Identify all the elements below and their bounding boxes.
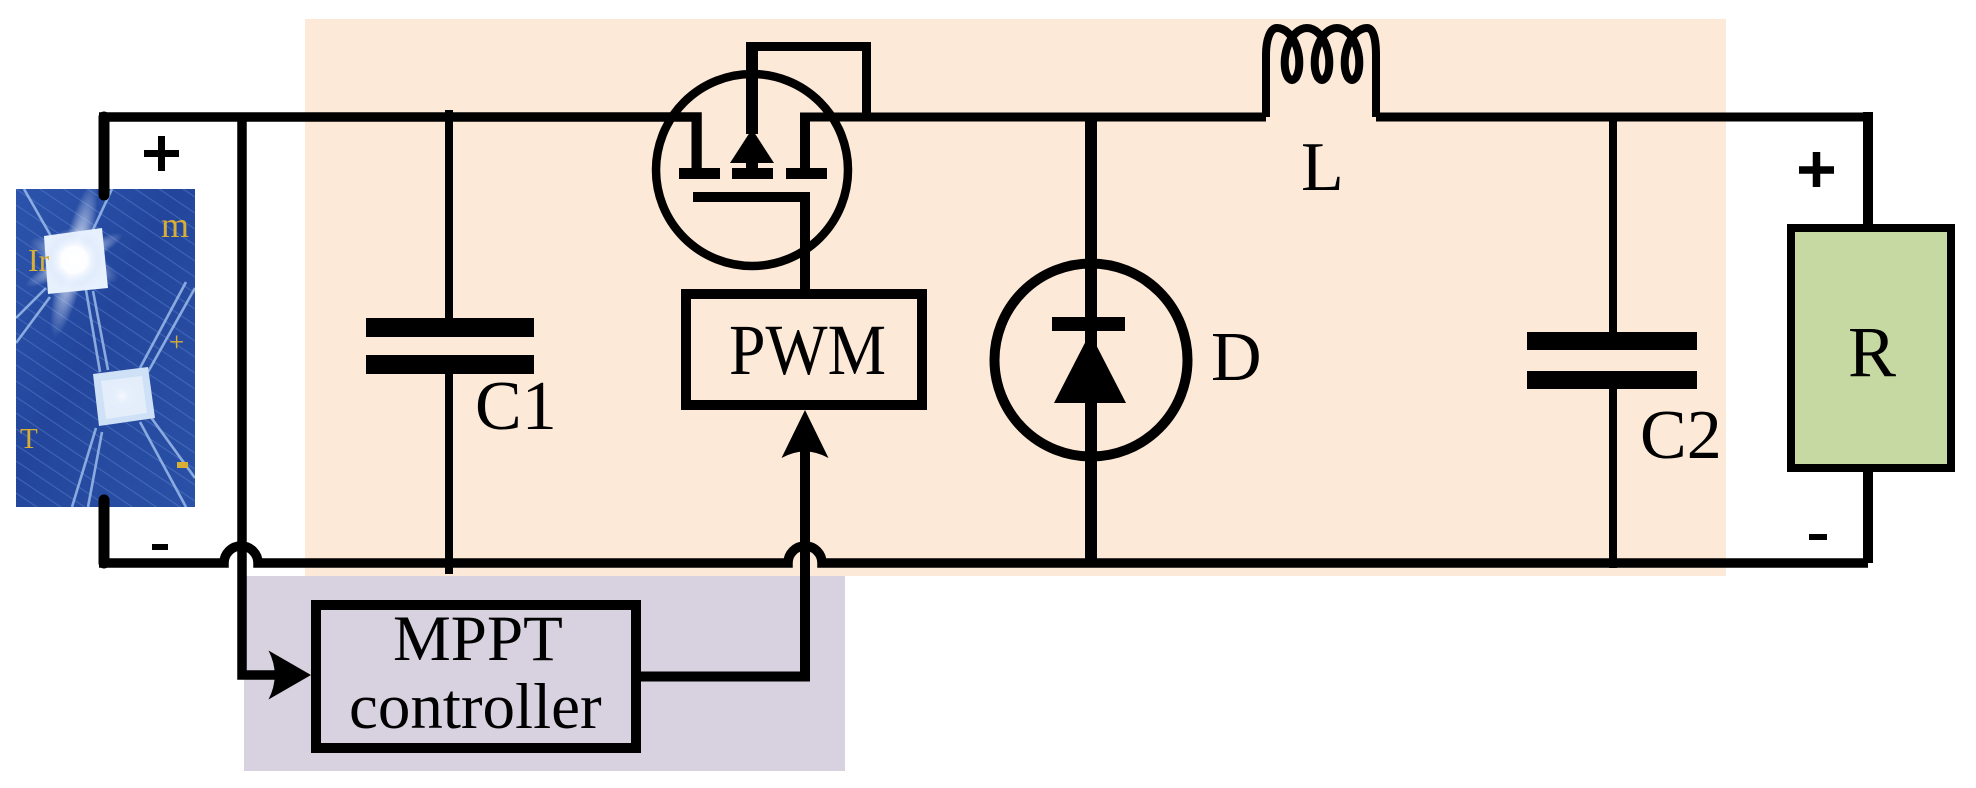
MPPT controller block (316, 605, 636, 748)
PWM block (686, 294, 922, 405)
MOSFET gate drive wire from MPPT output (641, 445, 805, 677)
C2 lead (1609, 117, 1617, 568)
main bright grid lines through the glints (16, 189, 195, 507)
PV negative lead (99, 500, 110, 563)
inductor L coil (1266, 28, 1376, 117)
svg-text:T: T (20, 423, 38, 455)
top rail right segment (1376, 113, 1873, 122)
svg-text:Ir: Ir (28, 242, 50, 278)
svg-text:MPPT: MPPT (393, 603, 563, 675)
output plus terminal (1799, 152, 1834, 187)
PV positive lead (99, 117, 110, 195)
resistor R (load) (1791, 228, 1951, 468)
bottom rail with crossover hops (99, 546, 1868, 563)
PV panel photo (16, 0, 195, 645)
MPPT stage background (lavender) (244, 576, 845, 771)
svg-text:C1: C1 (475, 368, 557, 445)
input minus terminal (152, 544, 168, 550)
svg-text:C2: C2 (1640, 397, 1722, 474)
svg-text:+: + (169, 327, 184, 357)
MOSFET Q1 (656, 42, 867, 292)
diode D (995, 264, 1188, 457)
svg-text:PWM: PWM (729, 310, 886, 390)
top rail left segment (99, 117, 697, 170)
svg-text:L: L (1301, 129, 1344, 206)
input plus terminal (144, 136, 179, 171)
converter stage background (peach) (305, 19, 1726, 576)
MPPT sense wire (242, 117, 281, 675)
svg-text:D: D (1211, 319, 1262, 396)
svg-text:m: m (161, 205, 189, 245)
svg-text:controller: controller (349, 671, 602, 743)
load lead (1863, 112, 1873, 563)
PWM input arrowhead (782, 410, 829, 458)
svg-text:R: R (1848, 312, 1896, 392)
capacitor C2 plates (1527, 332, 1697, 389)
C1 lead (445, 110, 453, 574)
diode lead (1085, 117, 1097, 563)
output minus terminal (1809, 534, 1827, 540)
lens flare (41, 179, 107, 341)
glint diamonds (44, 228, 108, 294)
MPPT input arrowhead (269, 651, 312, 700)
PV labels (20, 205, 189, 455)
capacitor C1 plates (366, 318, 534, 374)
top rail mid segment (800, 113, 1266, 122)
